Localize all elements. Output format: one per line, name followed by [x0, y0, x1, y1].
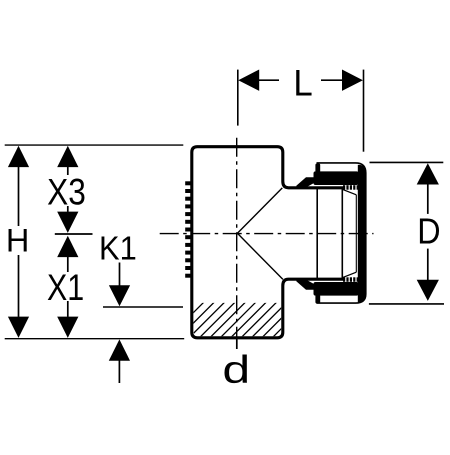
svg-text:D: D [417, 212, 440, 252]
body interior diagonal lower [237, 233, 283, 279]
svg-text:K1: K1 [99, 229, 137, 266]
dimension D extension line top [370, 161, 444, 163]
horizontal centerline [160, 233, 374, 235]
label D [417, 212, 440, 252]
dimension X3 line [67, 167, 69, 175]
cap outer shell outline [317, 163, 366, 303]
dimension H line [18, 167, 20, 226]
dimension H arrow up [8, 146, 29, 167]
socket chamfer vertical [355, 195, 357, 272]
cap knurled band top [314, 171, 359, 185]
dimension X3 arrow up [57, 146, 78, 167]
body outline [192, 147, 344, 338]
X3/X1 divider line [55, 233, 93, 235]
cap end wall [358, 165, 366, 302]
top reference line (H/X3 datum) [5, 144, 184, 146]
knurl serration top [343, 185, 359, 190]
shoulder top [296, 177, 315, 189]
socket interior vertical mid [341, 189, 343, 278]
svg-text:H: H [6, 222, 29, 258]
cap rim top [315, 164, 320, 173]
K1 lower datum line [103, 306, 183, 308]
label X3 [47, 172, 86, 213]
label K1 [99, 229, 137, 266]
dimension L extension line right [363, 70, 365, 152]
socket chamfer bottom [342, 272, 356, 278]
dimension X1 arrow up [57, 236, 78, 257]
body interior diagonal upper [237, 188, 282, 233]
dimension D extension line bottom [369, 303, 444, 305]
body spigot ribs (teeth) [185, 181, 191, 277]
dimension X3 arrow down [57, 212, 78, 233]
svg-text:X1: X1 [47, 267, 84, 309]
svg-text:d: d [222, 348, 250, 392]
cap knurled band bottom [314, 282, 359, 296]
dimension X1 line [67, 257, 69, 272]
dimension L extension line left [237, 70, 239, 126]
bottom reference line (H/X1 datum) [5, 338, 185, 340]
svg-text:X3: X3 [47, 172, 86, 213]
socket interior vertical left [316, 189, 318, 278]
dimension D arrow down [417, 280, 439, 301]
vertical centerline [236, 138, 238, 349]
label L [293, 63, 312, 104]
dimension K1 upper arrow down [119, 263, 121, 287]
dimension K1 lower arrow up [109, 339, 130, 360]
label X1 [47, 267, 84, 309]
dimension L line [259, 79, 279, 81]
dimension D line [427, 184, 429, 214]
cap rim bottom [315, 295, 320, 304]
svg-text:L: L [293, 63, 312, 104]
label H [6, 222, 29, 258]
label d [222, 348, 250, 392]
dimension X1 arrow down [57, 317, 78, 338]
dimension H arrow down [8, 317, 29, 338]
label d leader [236, 340, 238, 350]
dimension L arrow left [238, 70, 259, 91]
knurl serration bottom [343, 277, 359, 282]
dimension D arrow up [417, 163, 439, 184]
dimension L arrow right [342, 70, 363, 91]
shoulder bottom [296, 278, 315, 290]
socket chamfer top [342, 189, 356, 195]
